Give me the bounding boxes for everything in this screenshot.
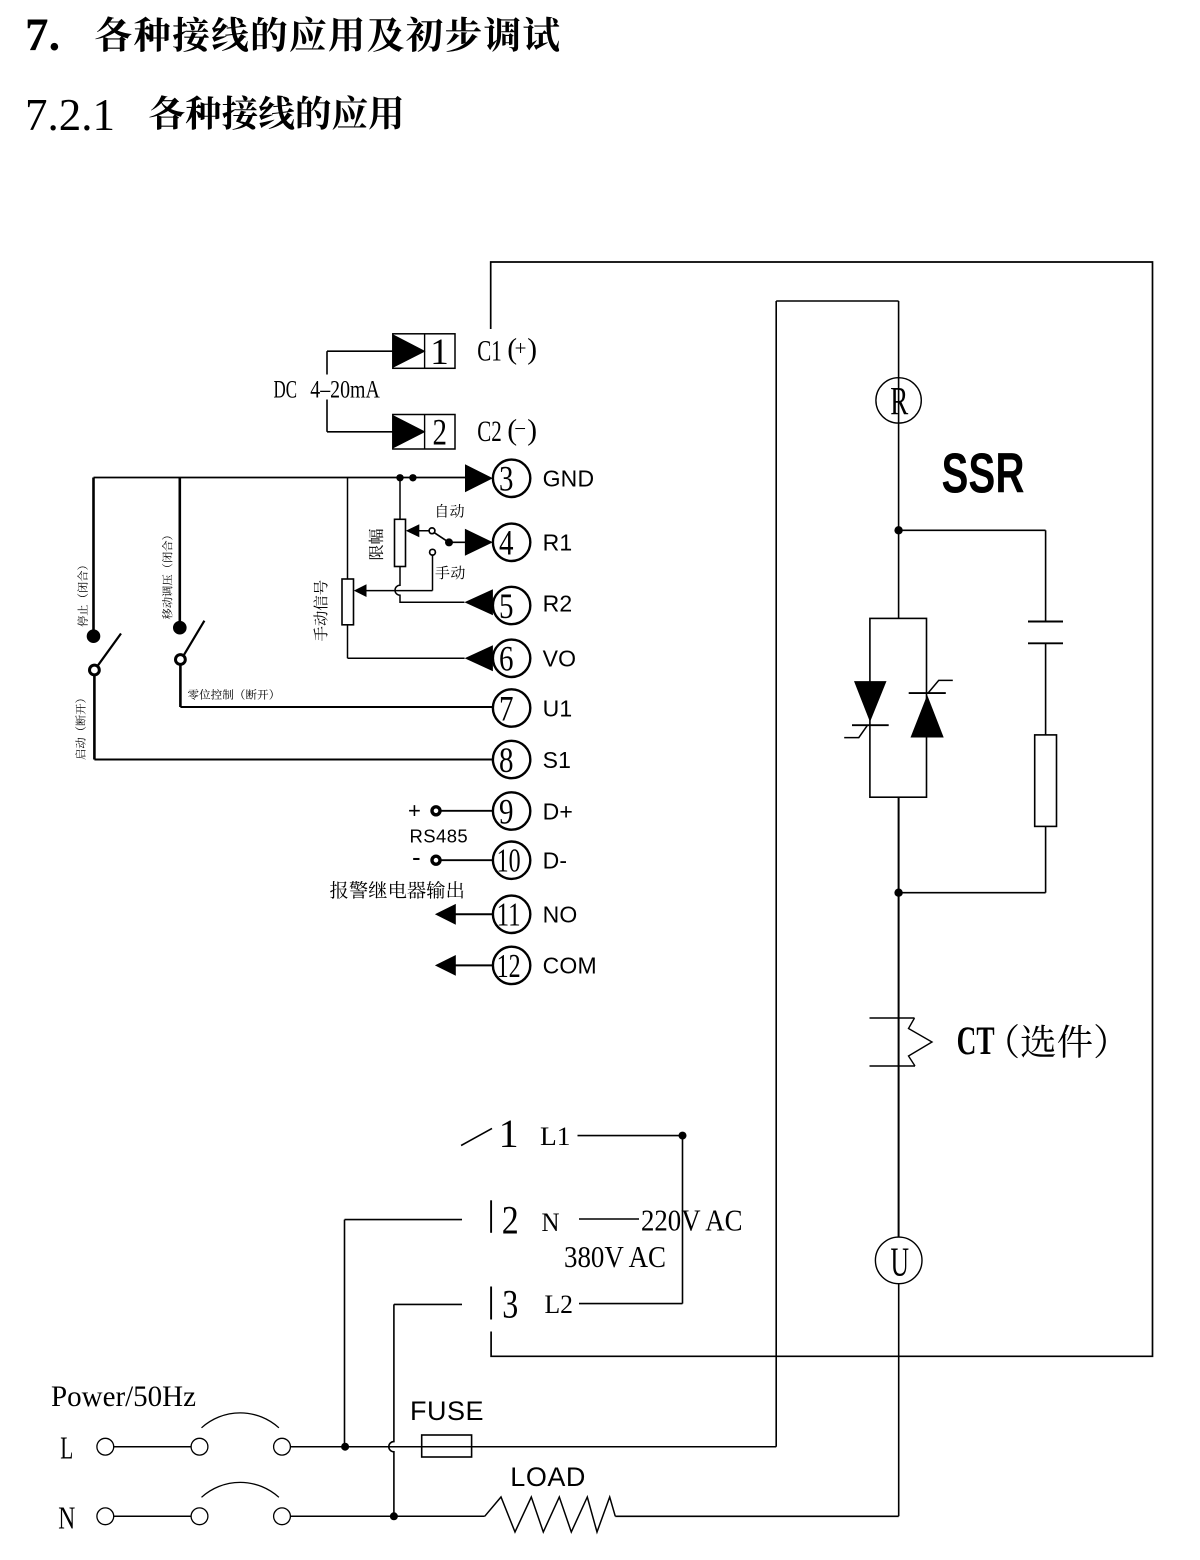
thyristor module box bbox=[870, 618, 927, 797]
label 移动调压（闭合） (rotated) bbox=[162, 608, 172, 619]
svg-text:COM: COM bbox=[543, 953, 597, 979]
wire riser to terminal 2 N bbox=[344, 1220, 346, 1447]
L breaker pole bbox=[191, 1438, 208, 1455]
arrow into terminal 1 bbox=[393, 335, 425, 368]
svg-text:11: 11 bbox=[497, 897, 521, 934]
svg-text:4–20mA: 4–20mA bbox=[310, 375, 380, 404]
switch contact circle bbox=[90, 665, 100, 675]
svg-text:1: 1 bbox=[430, 332, 449, 373]
wire capacitor to resistor bbox=[1045, 643, 1047, 735]
L breaker pole bbox=[274, 1438, 291, 1455]
breaker arc L bbox=[202, 1413, 279, 1428]
svg-text:220V AC: 220V AC bbox=[641, 1203, 743, 1238]
jumper L1-L2 bbox=[682, 1136, 684, 1304]
svg-text:R2: R2 bbox=[543, 591, 573, 617]
wire bbox=[114, 1446, 191, 1448]
junction dot bbox=[679, 1132, 687, 1140]
wire DC- into terminal 2 bbox=[327, 431, 393, 433]
switch 停止/启动 wire from bus bbox=[92, 478, 95, 631]
current transformer CT bbox=[870, 1017, 915, 1019]
wire contact down to terminal 8 bbox=[93, 675, 96, 760]
wire riser to terminal 3 L2 with hop over L bbox=[389, 1304, 394, 1516]
wire pole to terminal 4 arrow bbox=[449, 541, 466, 543]
wire wiper to 手动 contact bbox=[367, 590, 433, 592]
wire pot 手动信号 top to bus bbox=[347, 478, 349, 580]
wire U down to load return bbox=[898, 1284, 900, 1517]
terminal 9 circle bbox=[493, 792, 530, 829]
switch 移动调压 wire from bus bbox=[179, 478, 182, 623]
svg-text:C2: C2 bbox=[477, 416, 502, 448]
svg-text:CT: CT bbox=[957, 1018, 995, 1063]
junction dot bbox=[396, 474, 403, 481]
snubber capacitor bbox=[1028, 621, 1063, 623]
snubber resistor bbox=[1035, 735, 1057, 827]
N input terminal bbox=[97, 1508, 114, 1525]
wire pot bottom to terminal 6 bbox=[347, 625, 349, 658]
terminal 11 circle bbox=[493, 896, 530, 933]
svg-text:+: + bbox=[515, 336, 527, 360]
voltmeter circle U bbox=[875, 1237, 922, 1284]
wire L1 to jumper bbox=[578, 1135, 683, 1137]
svg-text:N: N bbox=[58, 1500, 75, 1536]
arrow out of terminal 5 bbox=[464, 589, 493, 615]
wire DC+ into terminal 1 bbox=[327, 350, 393, 352]
wire top common (GND bus) bbox=[94, 477, 466, 479]
wire SSR top tee bbox=[776, 300, 898, 302]
svg-text:FUSE: FUSE bbox=[410, 1396, 484, 1426]
junction dot bbox=[409, 474, 416, 481]
label 手动信号 (rotated) bbox=[314, 627, 328, 641]
N breaker pole bbox=[274, 1508, 291, 1525]
svg-text:D-: D- bbox=[543, 848, 568, 874]
svg-text:3: 3 bbox=[502, 1282, 518, 1327]
label 限幅 (rotated) bbox=[369, 545, 383, 559]
terminal 8 circle bbox=[493, 741, 530, 778]
svg-text:+: + bbox=[408, 798, 421, 823]
arrow into terminal 3 bbox=[465, 464, 493, 492]
wire thyristor box to CT bbox=[898, 797, 900, 1237]
arrow into terminal 4 bbox=[465, 529, 493, 556]
wire contact down to terminal 7 bbox=[179, 665, 182, 708]
svg-text:7.: 7. bbox=[25, 9, 60, 61]
svg-text:Power/50Hz: Power/50Hz bbox=[51, 1380, 196, 1413]
label 零位控制（断开） bbox=[188, 689, 199, 700]
svg-text:−: − bbox=[514, 416, 526, 440]
label 自动 bbox=[437, 504, 447, 518]
wire into power terminal 2 bbox=[345, 1219, 463, 1221]
wire N stub bbox=[579, 1218, 639, 1220]
switch contact circle bbox=[176, 655, 186, 665]
terminal block edge segment bbox=[490, 1287, 492, 1320]
wire bbox=[114, 1515, 191, 1517]
label 启动（断开） (rotated) bbox=[75, 750, 85, 760]
wire outer loop from C1 around to power terminal block bbox=[491, 262, 1153, 1356]
wire to terminal 10 bbox=[440, 859, 493, 861]
terminal 12 circle bbox=[493, 947, 530, 984]
svg-text:9: 9 bbox=[499, 791, 514, 831]
svg-text:DC: DC bbox=[274, 375, 298, 404]
pot wiper arrow 手动信号 bbox=[354, 584, 367, 597]
contact 自动 bbox=[429, 528, 435, 534]
svg-text:U: U bbox=[890, 1238, 909, 1284]
svg-text:10: 10 bbox=[497, 843, 521, 880]
SCR1 gate bbox=[844, 725, 867, 737]
wire snubber branch top bbox=[899, 529, 1046, 531]
svg-text:N: N bbox=[542, 1208, 560, 1237]
wire resistor to bottom junction bbox=[1045, 826, 1047, 892]
junction dot bbox=[894, 889, 902, 897]
thyristor SCR2 (conducts up) bbox=[911, 695, 944, 738]
junction dot bbox=[390, 1512, 398, 1520]
contact 手动 bbox=[430, 549, 436, 555]
terminal 1 (C1) box bbox=[393, 334, 455, 369]
switch lever bbox=[184, 621, 204, 655]
label 停止（闭合） (rotated) bbox=[77, 616, 87, 627]
terminal 6 circle bbox=[493, 640, 530, 677]
svg-text:L: L bbox=[60, 1430, 73, 1466]
RS485 + node bbox=[432, 807, 440, 815]
svg-text:380V AC: 380V AC bbox=[564, 1239, 666, 1274]
svg-text:4: 4 bbox=[499, 523, 514, 563]
svg-text:R1: R1 bbox=[543, 530, 573, 556]
label 手动 bbox=[435, 566, 449, 580]
svg-text:5: 5 bbox=[499, 586, 514, 626]
svg-text:6: 6 bbox=[499, 639, 514, 679]
breaker arc N bbox=[202, 1482, 279, 1497]
svg-text:12: 12 bbox=[497, 948, 521, 985]
svg-text:GND: GND bbox=[543, 466, 595, 492]
L input terminal bbox=[97, 1438, 114, 1455]
RS485 - node bbox=[432, 856, 440, 864]
fuse FUSE bbox=[422, 1435, 472, 1457]
svg-text:L2: L2 bbox=[545, 1290, 574, 1319]
svg-text:1: 1 bbox=[499, 1111, 519, 1156]
label 报警继电器输出 bbox=[330, 881, 348, 899]
terminal 4 circle bbox=[493, 524, 530, 561]
wire 手动 contact down bbox=[432, 555, 434, 591]
svg-text:7.2.1: 7.2.1 bbox=[25, 89, 115, 140]
svg-text:S1: S1 bbox=[543, 747, 572, 773]
svg-text:C1: C1 bbox=[477, 335, 502, 367]
load resistor zigzag bbox=[485, 1497, 616, 1532]
svg-text:U1: U1 bbox=[543, 695, 573, 721]
terminal 3 circle bbox=[493, 460, 530, 497]
switch pole dot bbox=[173, 621, 187, 635]
svg-text:7: 7 bbox=[499, 688, 514, 728]
svg-text:3: 3 bbox=[499, 459, 514, 499]
svg-text:2: 2 bbox=[433, 413, 448, 454]
svg-text:): ) bbox=[527, 334, 537, 366]
wire DC source bracket bbox=[326, 351, 328, 374]
wire into power terminal 3 bbox=[394, 1303, 462, 1305]
switch pole dot bbox=[87, 629, 101, 643]
terminal 2 (C2) box bbox=[393, 415, 455, 450]
switch pole dot bbox=[445, 538, 453, 546]
svg-text:NO: NO bbox=[543, 902, 578, 928]
wire to terminal 9 bbox=[440, 810, 493, 812]
terminal 5 circle bbox=[493, 587, 530, 624]
arrow out of terminal 6 bbox=[465, 645, 493, 671]
junction dot snubber tap bbox=[894, 526, 902, 534]
arrow into terminal 2 bbox=[393, 415, 425, 448]
svg-text:R: R bbox=[890, 379, 908, 424]
breaker slash at power terminal 1 bbox=[461, 1128, 492, 1145]
svg-text:D+: D+ bbox=[543, 798, 573, 824]
switch lever bbox=[98, 634, 121, 666]
potentiometer 限幅 body bbox=[395, 519, 406, 566]
terminal 7 circle bbox=[493, 689, 530, 726]
svg-text:): ) bbox=[527, 414, 537, 446]
svg-text:VO: VO bbox=[543, 646, 577, 672]
wire L2 to jumper bbox=[579, 1303, 683, 1305]
wire L to fuse and SSR bbox=[290, 1446, 776, 1448]
svg-text:8: 8 bbox=[499, 740, 514, 780]
svg-text:L1: L1 bbox=[540, 1122, 571, 1151]
svg-text:-: - bbox=[412, 842, 421, 872]
wire N to load bbox=[290, 1515, 484, 1517]
SCR2 gate bbox=[928, 680, 953, 693]
arrow out of terminal 12 bbox=[435, 955, 456, 976]
terminal 10 circle bbox=[493, 842, 530, 879]
wire pot top to bus bbox=[399, 478, 401, 520]
switch lever (auto/manual) bbox=[434, 533, 449, 543]
terminal block edge segment bbox=[490, 1200, 492, 1233]
gate resistor circle R bbox=[876, 378, 921, 423]
pot wiper arrow 限幅 bbox=[406, 524, 420, 537]
svg-text:SSR: SSR bbox=[942, 442, 1025, 506]
thyristor SCR1 (conducts down) bbox=[854, 681, 887, 722]
svg-text:2: 2 bbox=[502, 1198, 519, 1243]
arrow out of terminal 11 bbox=[435, 904, 456, 925]
svg-text:LOAD: LOAD bbox=[510, 1462, 586, 1492]
wire fuse riser to SSR input bbox=[775, 301, 777, 1447]
N breaker pole bbox=[191, 1508, 208, 1525]
junction dot bbox=[341, 1443, 349, 1451]
wire pot bottom with crossover hop bbox=[395, 567, 464, 603]
potentiometer 手动信号 body bbox=[342, 579, 354, 625]
